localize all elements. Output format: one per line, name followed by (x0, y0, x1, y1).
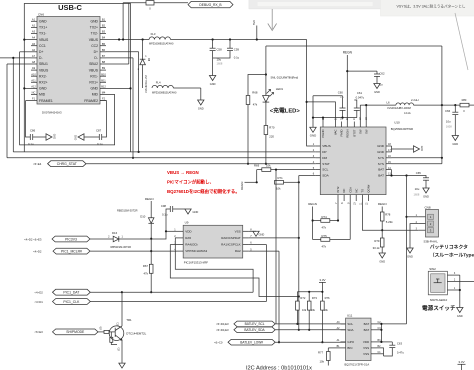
svg-text:バッテリコネクタ: バッテリコネクタ (430, 243, 468, 250)
CN6 pin B6 D+ (94, 48, 106, 54)
wire BAT pins junction (390, 170, 424, 177)
svg-text:CC1: CC1 (39, 44, 46, 48)
capacitor C61 bootstrap (354, 91, 365, 118)
svg-text:<6>D4,E3: <6>D4,E3 (216, 328, 229, 332)
svg-text:C62: C62 (379, 72, 385, 76)
svg-text:SYS: SYS (378, 162, 384, 166)
svg-text:RX1-: RX1- (90, 74, 98, 78)
svg-text:TX2-: TX2- (91, 32, 98, 36)
svg-text:PIC1_CLK: PIC1_CLK (63, 300, 80, 304)
wire SCL vertical to BATLEV_SCL (275, 169, 277, 324)
CN6 pin A3 TX1- (31, 30, 46, 36)
wire B7 D- drop (106, 58, 134, 159)
svg-text:(C): (C) (117, 322, 120, 326)
svg-text:SBU1: SBU1 (39, 62, 48, 66)
CN6 pin A8 SBU1 (31, 60, 48, 66)
diode D8 (138, 40, 150, 94)
svg-text:GND: GND (259, 233, 265, 237)
svg-text:47k: 47k (322, 226, 327, 230)
wire CN8 pin 2 to ground (410, 224, 418, 248)
svg-text:BAT: BAT (378, 174, 384, 178)
wire SW2 pin 2 off sheet (447, 278, 474, 281)
inductor L6 (387, 98, 461, 115)
CN6 pin A10 RX2- (31, 72, 47, 78)
resistor R79 (373, 238, 384, 253)
svg-text:C61: C61 (357, 91, 363, 95)
wire CHRG_STAT to U10 STAT (86, 163, 316, 165)
svg-text:TX2+: TX2+ (90, 26, 98, 30)
svg-text:PIC16F15313-I/RF: PIC16F15313-I/RF (184, 261, 208, 265)
svg-text:CC2: CC2 (91, 44, 98, 48)
svg-text:R69: R69 (254, 164, 260, 168)
svg-text:R77: R77 (318, 351, 324, 355)
ground for C87 shield (75, 134, 100, 140)
svg-text:REGN: REGN (343, 51, 353, 55)
U10 top pin 24 BTST (352, 117, 356, 137)
CN6 pin B3 TX2- (91, 30, 106, 36)
U10 pin 14 BAT (378, 167, 391, 172)
svg-text:1608: 1608 (217, 62, 223, 66)
CN6 pin B8 SBU2 (89, 60, 106, 66)
resistor R80 0 ohm (460, 98, 474, 113)
svg-text:R79: R79 (374, 239, 380, 243)
wire B6 D+ drop (106, 52, 140, 153)
svg-text:GND: GND (210, 82, 216, 86)
svg-text:VSS: VSS (235, 229, 241, 233)
U11 pin C2 BAT (364, 321, 382, 326)
svg-text:RX2-: RX2- (39, 74, 47, 78)
capacitor C98 (161, 204, 185, 231)
svg-text:0.1u: 0.1u (234, 56, 240, 60)
svg-text:VDD: VDD (185, 229, 192, 233)
svg-text:U10: U10 (394, 120, 400, 124)
svg-text:REGN: REGN (345, 130, 349, 138)
svg-text:PMID: PMID (340, 130, 344, 137)
svg-text:RA1/ICSPCLK: RA1/ICSPCLK (221, 243, 241, 247)
ground for C58 C59 (209, 65, 215, 86)
svg-text:TR1: TR1 (126, 318, 132, 322)
U10 bottom pin 11 TS (360, 189, 365, 205)
svg-text:NC: NC (32, 91, 36, 95)
wire RA2 to BATLEV_LOW# (249, 251, 280, 343)
svg-text:R67: R67 (143, 264, 149, 268)
svg-text:B7: B7 (102, 54, 106, 58)
wire CLK line (90, 245, 266, 302)
svg-text:R76: R76 (325, 296, 330, 300)
resistor R74 (313, 201, 340, 230)
resistor R68 (246, 75, 266, 165)
svg-text:GND: GND (452, 142, 458, 146)
svg-text:VBUS: VBUS (39, 68, 49, 72)
U9 pin 5 RA2 (235, 248, 252, 253)
wire SW2 pin 1 to ground (447, 275, 461, 307)
net label REGN at pullups (240, 182, 257, 190)
net flag BATLEV_SCL (216, 321, 275, 327)
wire VBUS rail (106, 38, 307, 40)
net flag SHIPMODE (34, 329, 98, 335)
svg-text:REGN: REGN (240, 182, 244, 190)
U10 top pin 20 PGND (321, 117, 325, 138)
CN6 pin B12 GND (90, 85, 106, 91)
resistor R78 (380, 212, 393, 238)
wire B8 SBU2 to DEBUG_RX_B (106, 3, 129, 64)
U10 top pin 22 PMID (340, 117, 344, 137)
U10 pin 2 DP (313, 149, 327, 154)
wire BATLEV_SCL to U11 (275, 323, 345, 325)
U9 pin 3 RA4(OD) (174, 242, 197, 247)
CN6 pin B9 VBUS (89, 66, 106, 72)
svg-text:D+: D+ (39, 50, 43, 54)
svg-text:10k: 10k (266, 164, 271, 168)
wire A12 GND to frame (23, 87, 31, 89)
annotation note box 2 VSYS comment (381, 0, 474, 16)
U10 pin 5 SCL (313, 167, 329, 172)
CN6 pin A6 D+ (31, 48, 43, 54)
svg-text:BQ27621YZFR-G1A: BQ27621YZFR-G1A (345, 362, 370, 366)
svg-text:1608: 1608 (446, 125, 452, 129)
svg-text:D-: D- (39, 56, 43, 60)
svg-text:MPZ1608B101ATAH0: MPZ1608B101ATAH0 (149, 43, 174, 46)
svg-text:0.1u: 0.1u (162, 213, 168, 217)
svg-text:2.2uH: 2.2uH (411, 98, 418, 102)
U10 top pin 23 REGN (345, 117, 349, 138)
svg-text:GND: GND (377, 150, 385, 154)
ground for C62 (374, 84, 380, 89)
CN6 pin A2 TX1+ (31, 24, 47, 30)
net flag PIC1_DAT (34, 289, 90, 295)
ground for TR1 (119, 363, 125, 368)
svg-text:BAT: BAT (364, 322, 370, 326)
capacitor C58 (210, 40, 223, 66)
svg-text:RA0/ICSPDAT: RA0/ICSPDAT (221, 236, 241, 240)
U10 pin 18 GND (377, 143, 391, 148)
svg-text:CHRG_STAT: CHRG_STAT (57, 162, 77, 166)
svg-text:NC: NC (342, 189, 346, 193)
charger IC U10 BQ25601DRTWR body (320, 120, 413, 194)
svg-text:<充電LED>: <充電LED> (270, 107, 301, 115)
wire BAT to U11 and battery connector (377, 176, 408, 344)
wire RA0 to SDA net (249, 237, 300, 239)
svg-text:GND: GND (53, 134, 56, 140)
svg-text:B1: B1 (102, 17, 106, 21)
svg-text:BAT: BAT (378, 168, 384, 172)
svg-text:<4>D2: <4>D2 (34, 291, 43, 295)
svg-text:B6: B6 (102, 48, 106, 52)
svg-text:SW2: SW2 (429, 267, 436, 271)
svg-text:A3: A3 (32, 30, 36, 34)
net label REGN at R78 (378, 202, 387, 212)
svg-text:A2: A2 (32, 24, 36, 28)
svg-text:R72: R72 (300, 296, 305, 300)
svg-text:0.1u: 0.1u (28, 142, 34, 146)
label battery connector (430, 243, 474, 258)
svg-text:SHIPMODE: SHIPMODE (66, 330, 85, 334)
svg-text:TS: TS (361, 189, 365, 193)
svg-text:GND: GND (457, 314, 463, 318)
svg-text:SDA: SDA (322, 174, 329, 178)
U9 pin 4 VPP/MCLR/RA3 (174, 248, 207, 253)
svg-text:CE#: CE# (348, 187, 352, 193)
svg-text:B8: B8 (102, 60, 106, 64)
ground for C98 (185, 209, 199, 214)
svg-text:R68: R68 (252, 91, 258, 95)
resistor R66 on debug line (146, 1, 154, 11)
svg-text:A12: A12 (31, 85, 36, 89)
svg-text:SML-D12U8WT86(Red): SML-D12U8WT86(Red) (271, 76, 299, 80)
resistor R77 (318, 348, 341, 366)
svg-text:A11: A11 (31, 78, 36, 82)
capacitor C87 (96, 101, 107, 146)
svg-text:1SS187AA1-157: 1SS187AA1-157 (145, 75, 148, 93)
wire RA4 wrap to SDA (170, 245, 300, 298)
U10 pin 6 SDA (313, 173, 330, 178)
svg-text:C86: C86 (30, 129, 36, 133)
svg-text:REGN: REGN (378, 202, 387, 206)
svg-text:SBU2: SBU2 (89, 62, 98, 66)
CN6 pin M4 MID (92, 91, 106, 97)
ground for C66 (452, 136, 458, 141)
U10 pin 3 DM (313, 155, 328, 160)
U11 pin B2 VSS (363, 345, 381, 350)
svg-text:C66: C66 (445, 109, 451, 113)
svg-text:I2C Address : 0b1010101x: I2C Address : 0b1010101x (246, 366, 312, 370)
svg-text:10u: 10u (415, 187, 420, 191)
svg-text:U9: U9 (185, 221, 189, 225)
svg-text:B10: B10 (101, 72, 106, 76)
svg-text:B2: B2 (102, 24, 106, 28)
svg-text:B9: B9 (102, 66, 106, 70)
svg-text:VSS: VSS (363, 352, 369, 356)
svg-text:MID: MID (39, 93, 46, 97)
svg-text:R73: R73 (312, 296, 317, 300)
resistor R67 (143, 264, 153, 276)
svg-text:47k: 47k (253, 103, 258, 107)
svg-text:VDD: VDD (363, 340, 370, 344)
red annotation text (167, 170, 240, 195)
wire B12 GND to frame (106, 87, 132, 89)
svg-text:3.3V: 3.3V (458, 360, 464, 364)
U10 pin 4 STAT (313, 161, 330, 166)
resistor R69 (254, 164, 316, 184)
wire D- A8 wrap to DM (7, 64, 31, 158)
wire PGND line under caps (312, 96, 357, 128)
svg-text:D+: D+ (94, 50, 98, 54)
svg-text:VBUS: VBUS (89, 38, 99, 42)
wire RA1 to CLK net (249, 244, 267, 246)
transistor TR1 DTC144EMT2L (98, 292, 147, 363)
capacitor C65 (414, 171, 430, 197)
svg-text:GND: GND (423, 194, 429, 198)
wire VBUS to VAC pin (307, 102, 336, 122)
svg-text:GND: GND (198, 106, 204, 110)
U10 top pin 18 SW (364, 117, 368, 134)
svg-text:BAT: BAT (364, 328, 370, 332)
U9 pin 1 VDD (174, 229, 192, 234)
svg-text:RB531SM-30T2R: RB531SM-30T2R (117, 209, 138, 213)
svg-text:B5: B5 (102, 42, 106, 46)
svg-text:A4: A4 (32, 36, 36, 40)
svg-text:D10: D10 (140, 214, 146, 218)
svg-text:MPZ1608B101ATAH0: MPZ1608B101ATAH0 (152, 92, 177, 95)
svg-text:<6>D4,E3: <6>D4,E3 (216, 322, 229, 326)
power net label 5V0 (252, 20, 257, 40)
svg-text:LED1: LED1 (276, 87, 284, 91)
svg-text:47k: 47k (322, 245, 327, 249)
CN6 pin B11 RX1+ (89, 78, 106, 84)
CN6 pin A1 GND (31, 17, 47, 23)
net label REGN above U10 (343, 51, 353, 122)
capacitor C66 (445, 105, 458, 135)
svg-text:GND: GND (193, 210, 199, 214)
net label REGN at D10 (145, 197, 154, 293)
svg-text:PIC3V3: PIC3V3 (65, 237, 77, 241)
U10 bottom pin 12 QON# (366, 184, 371, 205)
svg-text:S3B-PH-KL: S3B-PH-KL (424, 239, 439, 243)
svg-text:NC: NC (354, 189, 358, 193)
svg-text:電源スイッチ: 電源スイッチ (422, 304, 456, 312)
svg-text:4.11A: 4.11A (404, 111, 411, 115)
wire SW2 pin 3 (447, 272, 459, 275)
wire SYS pins to SYS node (392, 105, 444, 164)
wire MCLR line (90, 250, 177, 252)
CN6 pin A12 GND (31, 85, 47, 91)
ferrite bead FL4 (152, 81, 201, 95)
wire DM line (7, 157, 316, 159)
svg-text:<4>D2: <4>D2 (33, 249, 42, 253)
ground for SW2 (457, 308, 463, 313)
svg-text:<6>E3: <6>E3 (34, 330, 43, 334)
svg-text:VBUS: VBUS (322, 144, 330, 148)
ground for FL4 (198, 88, 204, 110)
U10 bottom pin 8 NC (341, 189, 346, 204)
wire BATLEV_LOW# to U11 (275, 341, 345, 343)
svg-text:10k: 10k (302, 308, 307, 312)
resistor R71 (275, 176, 300, 190)
svg-text:SW: SW (358, 129, 362, 134)
ground for R79 (379, 253, 385, 258)
U10 top pin 21 VAC (334, 117, 338, 135)
wire TS to divider (362, 201, 418, 230)
resistor R72 (296, 296, 307, 325)
svg-text:SDA: SDA (347, 328, 353, 332)
svg-text:GND: GND (310, 134, 316, 138)
resistor R73 (307, 296, 317, 331)
CN6 pin B10 RX1- (90, 72, 106, 78)
svg-text:VBUS: VBUS (39, 38, 49, 42)
ferrite bead FL3 (149, 32, 174, 46)
CN6 pin A5 CC1 (31, 42, 46, 48)
svg-text:RA5: RA5 (185, 236, 191, 240)
svg-text:DP: DP (322, 150, 326, 154)
svg-text:10k: 10k (320, 360, 325, 364)
svg-text:DEBUG_RX_B: DEBUG_RX_B (199, 3, 222, 7)
svg-text:GND: GND (39, 87, 47, 91)
CN6 pin B2 TX2+ (90, 24, 106, 30)
battery connector CN8 (416, 205, 439, 243)
svg-text:<6>C0: <6>C0 (214, 341, 223, 345)
svg-text:RA2: RA2 (235, 249, 241, 253)
resistor R76 (321, 296, 330, 344)
svg-text:RA4(OD): RA4(OD) (185, 243, 197, 247)
svg-text:TX1-: TX1- (39, 32, 46, 36)
resistor R75 (313, 201, 351, 249)
wire SW to inductor (360, 104, 396, 122)
svg-text:SCL: SCL (322, 168, 328, 172)
svg-text:A7: A7 (32, 54, 36, 58)
U10 bottom pin 10 NC (353, 189, 358, 206)
svg-text:SCL: SCL (347, 322, 353, 326)
svg-text:REGN: REGN (308, 202, 317, 206)
svg-text:B11: B11 (101, 78, 106, 82)
svg-text:VBUS → REGN: VBUS → REGN (167, 170, 199, 175)
svg-text:<4>D1: <4>D1 (34, 300, 43, 304)
CN6 pin B1 GND (90, 17, 106, 23)
power switch SW2 (428, 267, 447, 302)
capacitor C86 (26, 101, 36, 146)
svg-text:10k: 10k (324, 308, 329, 312)
svg-text:GND: GND (90, 20, 98, 24)
capacitor C62 (347, 71, 385, 86)
wire SYS node vertical (441, 46, 443, 105)
svg-text:C87: C87 (96, 129, 102, 133)
CN6 pin B5 CC2 (91, 42, 106, 48)
microcontroller U9 PIC16F15313 body (183, 221, 243, 265)
U9 pin 7 RA0/ICSPDAT (221, 235, 252, 240)
svg-text:GND: GND (75, 135, 78, 141)
wire VDD feed (151, 230, 177, 239)
svg-text:C60: C60 (338, 90, 344, 94)
svg-text:INT#: INT# (336, 186, 340, 193)
svg-text:FL3: FL3 (151, 32, 156, 36)
capacitor C59 (213, 40, 240, 60)
svg-text:3.3V: 3.3V (319, 278, 325, 282)
resistor R70 (264, 102, 275, 165)
svg-text:R70: R70 (269, 126, 275, 130)
svg-text:SYS: SYS (378, 156, 384, 160)
wire SDA vertical to BATLEV_SDA (298, 176, 300, 331)
svg-text:R71: R71 (278, 176, 284, 180)
annotation arrow from note box 1 (268, 9, 277, 31)
svg-text:CN8: CN8 (425, 205, 431, 209)
net flag BATLEV_LOW# (214, 339, 275, 345)
svg-text:A8: A8 (32, 60, 36, 64)
svg-text:STAT: STAT (322, 162, 330, 166)
U11 pin B1 BIN (337, 345, 353, 350)
svg-text:B3: B3 (102, 30, 106, 34)
svg-text:R80: R80 (462, 98, 467, 102)
ground at U9 VSS (249, 231, 264, 236)
svg-text:R78: R78 (385, 213, 391, 217)
svg-text:47k: 47k (143, 272, 148, 276)
svg-text:10u: 10u (340, 95, 345, 99)
capacitor C63 (384, 342, 405, 357)
svg-text:BQ27601DをI2C経由で初期化する。: BQ27601DをI2C経由で初期化する。 (167, 188, 240, 195)
svg-text:0.47u: 0.47u (397, 351, 404, 355)
svg-text:PIC1_DAT: PIC1_DAT (63, 290, 79, 294)
svg-text:A5: A5 (32, 42, 36, 46)
svg-text:A6: A6 (32, 48, 36, 52)
svg-text:VSS: VSS (363, 346, 369, 350)
svg-text:FL4: FL4 (156, 81, 161, 85)
svg-text:C98: C98 (161, 204, 167, 208)
U10 bottom pin 7 INT# (335, 186, 340, 204)
svg-text:USB-C: USB-C (58, 3, 82, 12)
svg-text:RX2+: RX2+ (39, 81, 48, 85)
svg-text:PIC1_MCLR#: PIC1_MCLR# (61, 249, 82, 253)
svg-text:10k: 10k (276, 187, 281, 191)
svg-text:220: 220 (269, 135, 274, 139)
svg-text:D16: D16 (112, 231, 118, 235)
